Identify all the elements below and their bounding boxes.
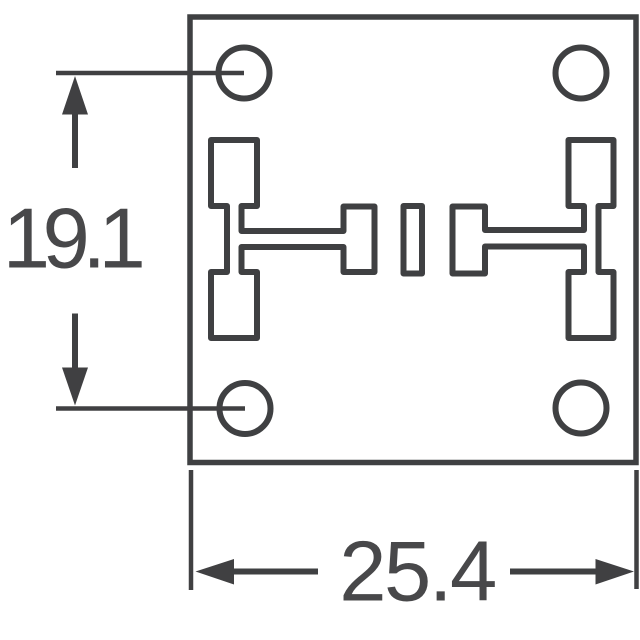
svg-text:19.1: 19.1	[3, 192, 143, 287]
mounting hole top-left	[219, 48, 270, 99]
mounting hole bottom-left	[220, 383, 271, 434]
center pad rectangle	[404, 206, 423, 274]
package outline square	[190, 17, 636, 463]
horizontal dimension left arrow	[196, 559, 235, 585]
mounting hole bottom-right	[556, 383, 607, 434]
vertical dimension upper arrow	[62, 76, 88, 115]
right pad shape	[453, 140, 614, 338]
extension line top (to top-left hole center)	[56, 71, 244, 76]
horizontal dimension right arrow	[510, 569, 597, 575]
svg-text:25.4: 25.4	[339, 525, 495, 620]
extension line lower-left (below outline)	[189, 470, 194, 590]
left pad shape	[211, 140, 375, 338]
vertical dimension lower arrow	[72, 314, 78, 371]
mounting hole top-right	[556, 48, 607, 99]
extension line bottom (to bottom-left hole center)	[56, 406, 245, 411]
extension line lower-right (below outline)	[634, 470, 639, 589]
